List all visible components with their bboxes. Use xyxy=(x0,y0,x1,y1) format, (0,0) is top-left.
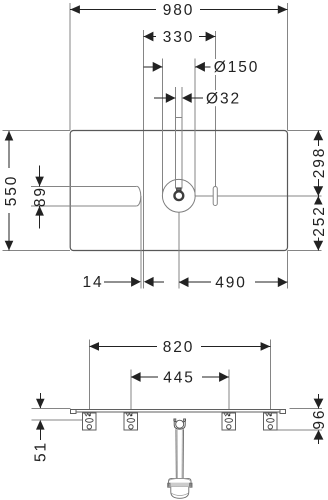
dim 96 top arrow xyxy=(314,399,324,409)
dim 298 top arrow xyxy=(313,131,323,141)
svg-text:51: 51 xyxy=(33,441,50,462)
dim 51 top leader xyxy=(39,393,41,408)
dim 89 top arrow xyxy=(35,177,44,187)
fitting U body xyxy=(174,419,185,429)
tangent extension O150 right xyxy=(194,59,196,196)
dim 980 label xyxy=(156,2,200,19)
svg-text:550: 550 xyxy=(3,175,20,207)
bracket 4 xyxy=(264,413,277,430)
extension 298 top right xyxy=(288,130,322,132)
dim 490 right arrow xyxy=(278,277,288,287)
svg-text:490: 490 xyxy=(215,275,247,292)
collar right ear xyxy=(190,483,192,487)
dim O32 label xyxy=(204,90,246,107)
dim 550 top arrow xyxy=(5,131,14,141)
drain assembly xyxy=(168,419,192,498)
extension 490 left (basin center) xyxy=(178,212,180,288)
collar bottom line xyxy=(169,486,191,488)
svg-text:445: 445 xyxy=(163,369,195,386)
slot hole xyxy=(213,187,217,206)
pipe left inner wall xyxy=(176,429,178,478)
dim 14 right leader xyxy=(154,281,164,283)
dim 298 bottom arrow xyxy=(313,186,323,196)
extension 490 right xyxy=(287,251,289,289)
extension 96 bottom xyxy=(277,429,322,431)
extension line 330-right / slot centerline xyxy=(214,31,216,187)
dim O150 label xyxy=(212,59,264,76)
dim 14 right arrow xyxy=(144,277,154,287)
dim 330 label xyxy=(156,29,199,46)
dim 445 line xyxy=(131,376,229,378)
fitting inner circle xyxy=(176,420,184,428)
extension O32 right xyxy=(181,87,183,188)
dim 980 left arrow xyxy=(70,5,80,14)
dim 298 label xyxy=(311,146,328,179)
dim 820 right arrow xyxy=(261,342,271,351)
extension 445 left xyxy=(130,370,132,414)
dim 14 leader xyxy=(104,281,131,283)
svg-text:980: 980 xyxy=(163,2,195,19)
extension 252 bottom right xyxy=(288,250,322,252)
extension 445 right xyxy=(228,370,230,414)
dim 89 bottom leader xyxy=(39,206,41,229)
extension line left of 980 xyxy=(69,3,71,131)
dim 96 bottom arrow xyxy=(314,430,324,440)
dim O32 left arrow xyxy=(166,93,176,103)
cup inner arc xyxy=(171,493,188,495)
dim O150 right leader xyxy=(195,66,210,68)
extension 550 top xyxy=(3,130,71,132)
dim 252 bottom arrow xyxy=(313,241,323,251)
pipe right inner wall xyxy=(181,429,183,478)
dim 252 top arrow xyxy=(313,196,323,206)
svg-text:298: 298 xyxy=(311,147,328,179)
collar nut xyxy=(169,479,191,487)
dim O32 left leader xyxy=(154,97,176,99)
collar left ear xyxy=(168,483,170,487)
svg-text:96: 96 xyxy=(311,409,328,430)
dim 51 bottom arrow xyxy=(36,420,45,430)
faucet cap xyxy=(177,188,182,191)
dim O32 right leader xyxy=(192,97,203,99)
dim 445 left arrow xyxy=(131,372,141,382)
dim 330 left arrow xyxy=(144,32,154,42)
extension 820 right xyxy=(269,339,271,413)
dim 490 line xyxy=(179,281,288,283)
dim 89 bottom arrow xyxy=(35,206,44,216)
dim 330 right arrow xyxy=(206,32,216,42)
dim 820 label xyxy=(157,339,201,356)
dim 550 label xyxy=(2,168,20,213)
extension 550 bottom xyxy=(3,250,71,252)
dim 445 right arrow xyxy=(219,372,229,382)
extension 96 top xyxy=(290,407,323,409)
svg-text:Ø150: Ø150 xyxy=(214,59,260,76)
dim 490 label xyxy=(211,275,255,292)
pipe left wall xyxy=(175,429,177,478)
dim 820 left arrow xyxy=(89,342,99,351)
dim O150 left arrow xyxy=(153,62,163,72)
extension 51 top xyxy=(32,407,71,409)
bracket 3 xyxy=(222,413,235,430)
dim 51 top arrow xyxy=(36,399,45,409)
dim 550 bottom arrow xyxy=(5,241,14,251)
dim 980 right arrow xyxy=(278,5,288,14)
svg-text:252: 252 xyxy=(311,205,328,237)
dim 96 top leader xyxy=(318,394,320,408)
bracket 1 xyxy=(83,413,96,430)
centerline to right dims xyxy=(195,195,321,197)
fitting right ear xyxy=(184,419,186,422)
collar rim xyxy=(170,478,191,480)
bracket 2 xyxy=(124,413,137,430)
basin circle xyxy=(162,179,195,212)
towel bar end cap xyxy=(137,186,141,206)
dim 820 line xyxy=(89,345,270,347)
dim 89 top leader xyxy=(39,166,41,187)
svg-text:Ø32: Ø32 xyxy=(206,90,241,107)
fitting left ear xyxy=(174,419,176,422)
cup body xyxy=(171,487,189,499)
console plate 980x550 xyxy=(70,131,287,251)
dim 550 line xyxy=(8,131,10,251)
dim 980 line xyxy=(70,9,287,11)
dim O32 right arrow xyxy=(182,93,192,103)
dim 252 label xyxy=(311,205,328,238)
extension line 330-left / 14-right xyxy=(143,30,145,289)
faucet ring xyxy=(174,191,183,200)
dim 14 left arrow xyxy=(131,277,141,287)
extension 820 left xyxy=(88,339,90,413)
extension 51 bottom xyxy=(32,419,86,421)
collar hatching xyxy=(171,483,189,487)
tap box cap xyxy=(176,117,183,119)
dim 445 label xyxy=(158,369,202,386)
dim 490 left arrow xyxy=(179,277,189,287)
pipe right wall xyxy=(182,429,184,478)
dim 89 label xyxy=(32,186,49,207)
dim O150 right arrow xyxy=(195,62,205,72)
dim 330 line xyxy=(144,36,216,38)
svg-text:820: 820 xyxy=(163,339,195,356)
extension line right of 980 xyxy=(287,3,289,131)
mounting plate xyxy=(71,409,286,412)
plate left end cap xyxy=(71,409,77,413)
dim 298/252 line xyxy=(317,131,319,251)
towel bar bottom line xyxy=(31,205,137,207)
svg-text:89: 89 xyxy=(32,186,49,207)
dim 96 bottom leader xyxy=(318,440,320,444)
svg-text:14: 14 xyxy=(82,274,103,291)
plate right end cap xyxy=(280,409,286,413)
svg-text:330: 330 xyxy=(163,29,195,46)
tangent extension O150 left xyxy=(161,59,163,196)
dim 51 bottom leader xyxy=(39,430,41,440)
towel bar top line xyxy=(31,185,137,187)
extension from bar end (14-left) xyxy=(140,196,142,288)
extension O32 left xyxy=(175,87,177,188)
dim O150 left leader xyxy=(144,66,163,68)
